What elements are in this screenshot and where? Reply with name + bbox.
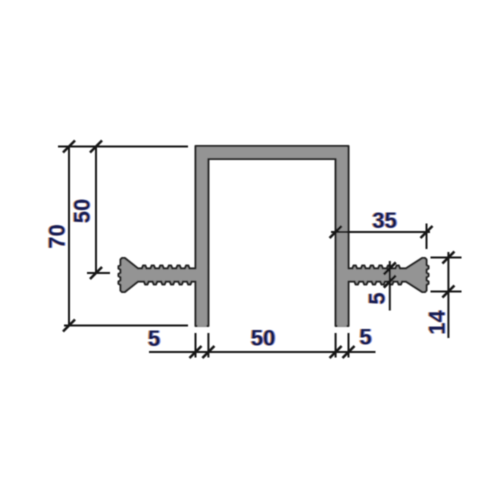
tick 14 top xyxy=(442,252,454,264)
tick bottom of 70 xyxy=(63,320,75,332)
right wall bottom cut face (lighter) xyxy=(337,325,346,327)
left wall bottom cut face (lighter) xyxy=(197,325,206,327)
bottom dimension line 5-50-5 xyxy=(149,351,376,353)
tick top of 70 xyxy=(63,141,75,153)
svg-text:5: 5 xyxy=(148,326,160,351)
extension line below right wall outer xyxy=(348,333,350,358)
top extension line xyxy=(58,146,188,148)
label 50 (rotated) xyxy=(70,199,95,223)
tick 5R bottom xyxy=(384,276,396,288)
tick bottom right outer xyxy=(343,346,355,358)
label 5 bottom left xyxy=(148,326,160,351)
extension line right end of 35 xyxy=(426,224,428,250)
svg-text:5: 5 xyxy=(365,292,390,304)
tick 35 left xyxy=(330,226,342,238)
svg-text:35: 35 xyxy=(372,208,396,233)
tick bottom of 50 xyxy=(90,267,102,279)
label 5 bottom right xyxy=(359,325,371,350)
extension line below left wall inner xyxy=(207,333,209,358)
label 5 right (rotated) xyxy=(365,292,390,304)
svg-text:70: 70 xyxy=(45,224,70,248)
svg-text:14: 14 xyxy=(425,310,450,335)
label 14 (rotated) xyxy=(425,310,450,335)
extension line 14 top xyxy=(431,257,462,259)
label 70 (rotated) xyxy=(45,224,70,248)
stub extension at arm centre for 50 xyxy=(87,272,110,274)
bottom extension line for 70 xyxy=(64,325,188,327)
extension line below right wall inner xyxy=(335,333,337,358)
profile body: U-channel with barbed anchor arms xyxy=(119,146,429,326)
svg-text:50: 50 xyxy=(251,326,275,351)
svg-text:5: 5 xyxy=(359,325,371,350)
dimension line 35 (horizontal) xyxy=(331,231,430,233)
tick 35 right xyxy=(421,226,433,238)
extension line below left wall outer xyxy=(195,333,197,358)
tick top of 50 xyxy=(90,141,102,153)
tick bottom left inner xyxy=(202,346,214,358)
dimension line 14 (vertical) xyxy=(447,252,449,338)
tick 14 bottom xyxy=(442,286,454,298)
extension line 14 bottom xyxy=(431,291,462,293)
tick bottom right inner xyxy=(330,346,342,358)
label 35 xyxy=(372,208,396,233)
label 50 bottom centre xyxy=(251,326,275,351)
tick bottom left outer xyxy=(190,346,202,358)
dimension line 70 (vertical) xyxy=(68,147,70,326)
dimension line 5 right (vertical through arm) xyxy=(389,261,391,311)
svg-text:50: 50 xyxy=(70,199,95,223)
tick 5R top xyxy=(384,262,396,274)
dimension line 50 (vertical) xyxy=(95,147,97,274)
